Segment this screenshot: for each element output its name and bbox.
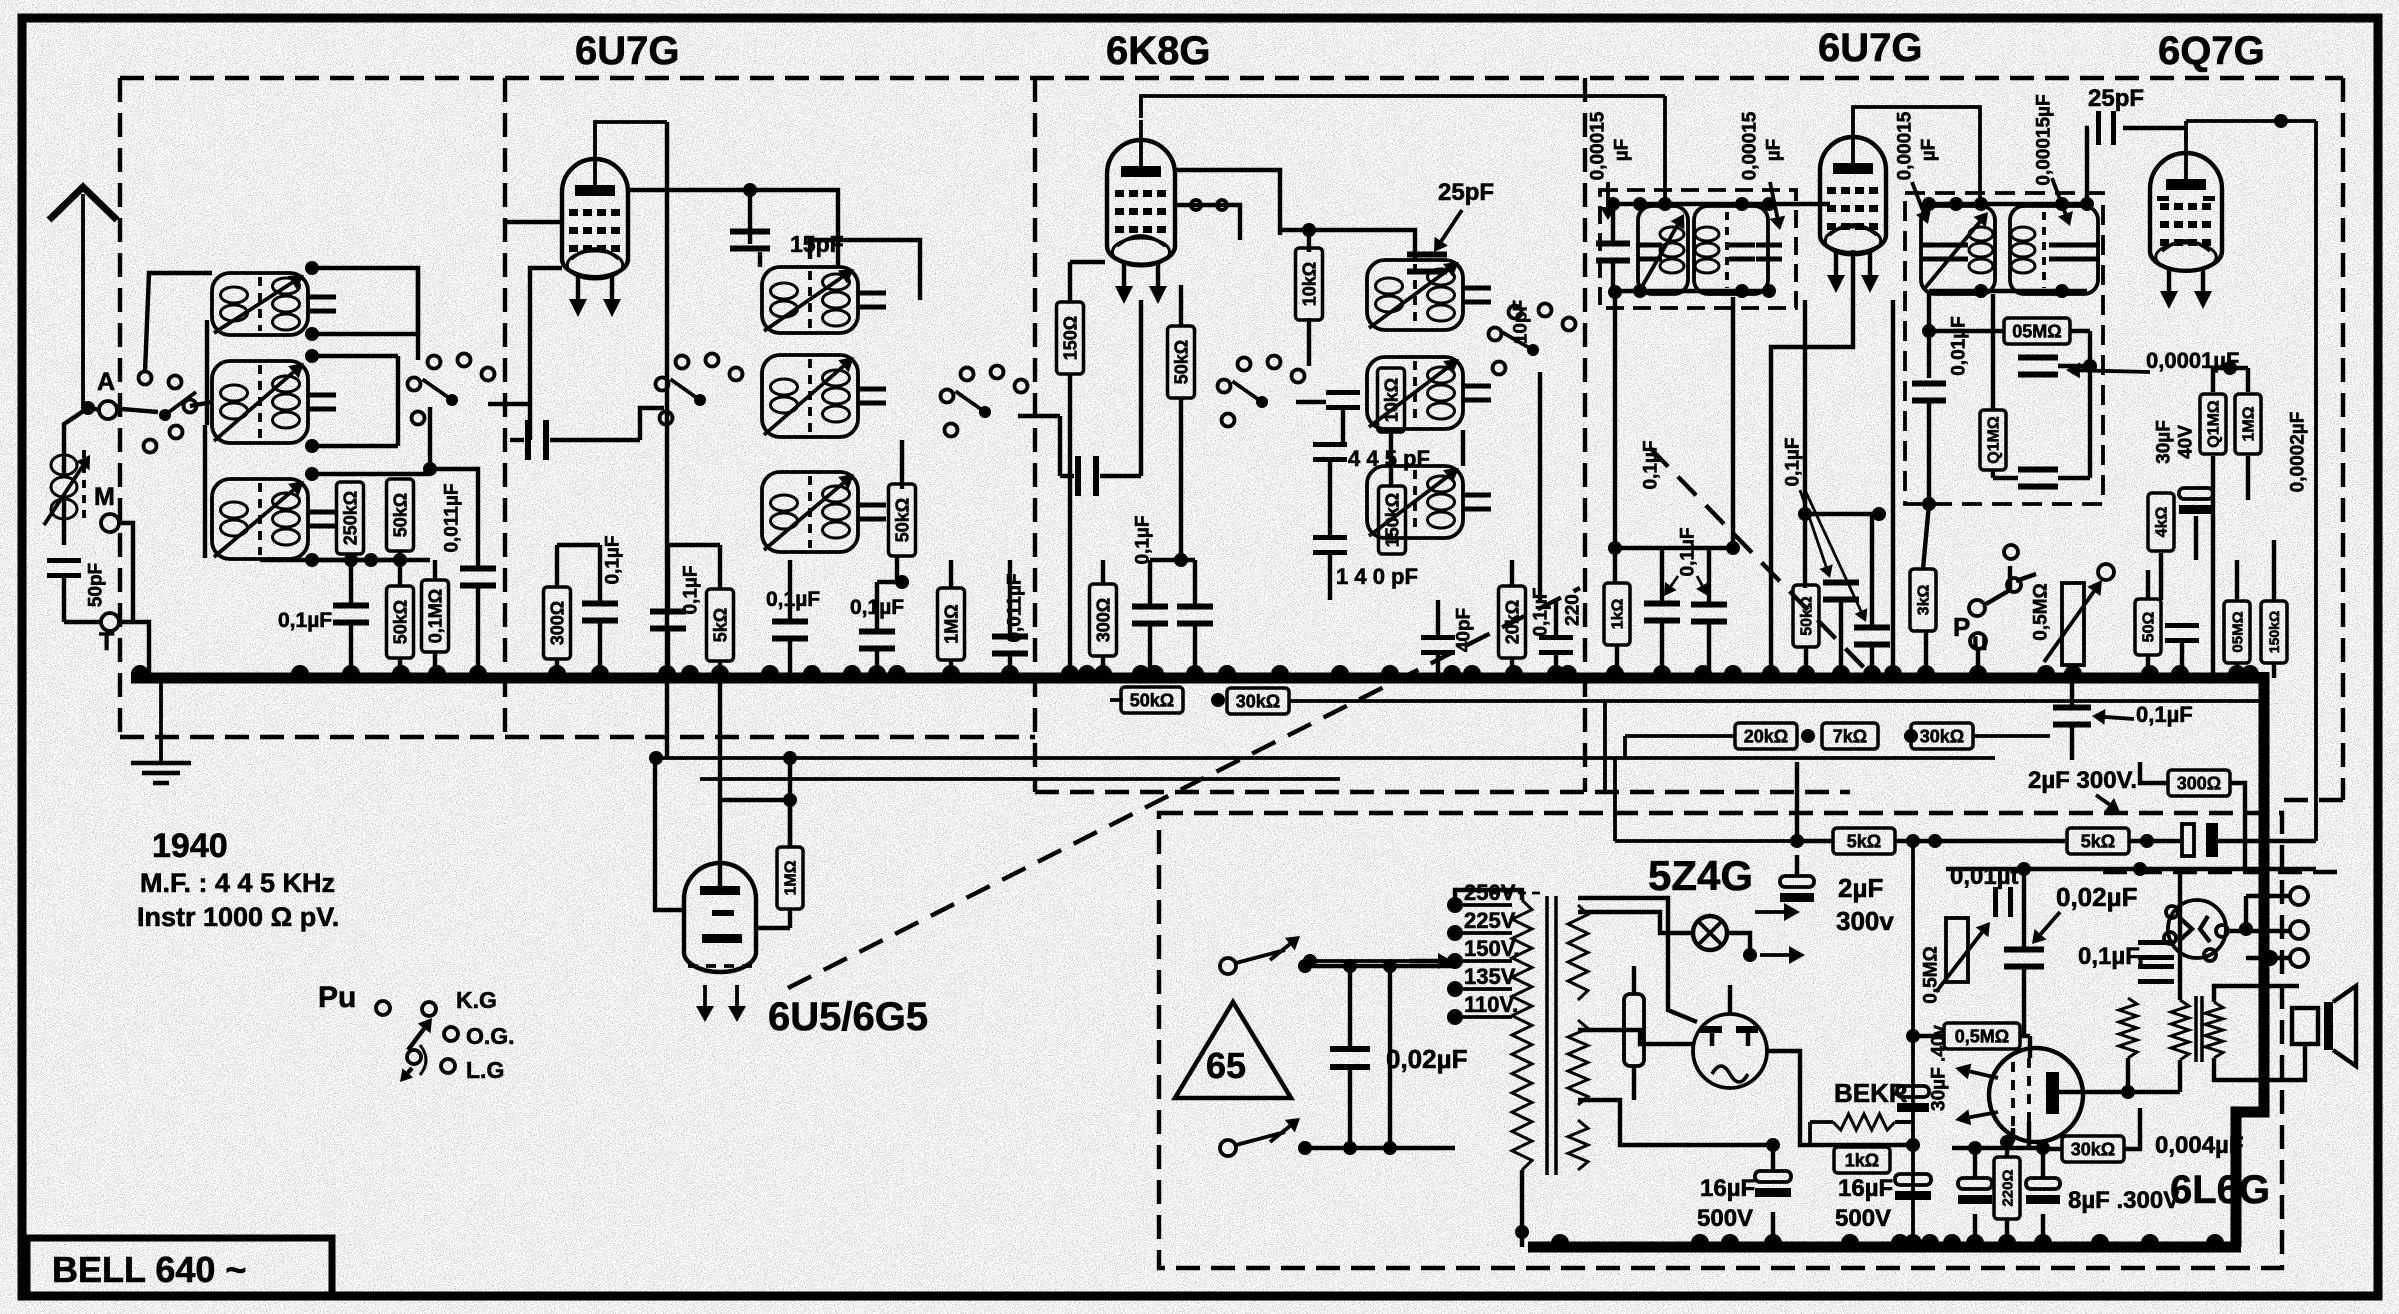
coupling capacitor stage1 [525, 420, 531, 460]
bus junction [131, 665, 149, 674]
capacitor 0.1uF A [333, 603, 369, 609]
arrow 25pF [1441, 210, 1462, 241]
bus junction [2141, 665, 2159, 674]
osc coil C2 [1367, 357, 1463, 429]
secondary to 5Z4G [1578, 1030, 1694, 1044]
power supply dashed box [1159, 813, 2282, 1268]
bus junction [1061, 665, 1079, 674]
psu bus junction [2206, 1234, 2224, 1243]
capacitor 0.1uF Da [1644, 601, 1680, 607]
6U5 arrows [703, 985, 707, 1006]
terminal M [101, 514, 119, 532]
bus junction [1271, 665, 1289, 674]
band switch S4 [1256, 396, 1268, 408]
arrow 0,0001 [2080, 370, 2150, 372]
wire osc chain [1307, 318, 1311, 366]
psu bus junction [1904, 1234, 1922, 1243]
wire S3 out [1018, 414, 1060, 418]
psu bus junction [2141, 1234, 2159, 1243]
detector riser B [1991, 294, 1995, 409]
bus junction [342, 665, 360, 674]
choke BEKR [1833, 1114, 1895, 1130]
transformer core [1545, 896, 1549, 1175]
wire avc row [1805, 512, 1879, 516]
bus junction [711, 665, 729, 674]
gang coupling dashed diagonal 2 [1650, 448, 1878, 682]
wire det 3 [1991, 470, 1995, 478]
tone pot [1946, 918, 1968, 982]
coupling capacitor stage2 [1075, 456, 1081, 496]
resistor 4k [2148, 493, 2174, 551]
bus junction [1797, 665, 1815, 674]
arrow 0,1uF right [2105, 717, 2134, 719]
capacitor 0.1uF right [2053, 705, 2091, 711]
capacitor det 3 [2018, 467, 2058, 473]
IF transformer 1 shield contents - coupling capacitor [1596, 241, 1630, 247]
6L6G plate [2046, 1072, 2059, 1114]
capacitor det bypass [2018, 355, 2058, 361]
tube 5Z4G [1693, 1014, 1767, 1088]
pot wire top [2052, 540, 2073, 583]
Pu contact 2 [422, 1002, 436, 1016]
band switch S3 [979, 406, 991, 418]
wire 5k left [1797, 839, 1833, 843]
bus junction [1653, 665, 1671, 674]
bus junction [548, 665, 566, 674]
arrow 0,1uF Da [1671, 576, 1678, 586]
detector riser A [1927, 294, 1931, 378]
resistor 1M 6U5 [777, 847, 803, 909]
tube 6K8G [1107, 140, 1175, 265]
bus junction [2171, 665, 2189, 674]
wire osc right [1461, 430, 1465, 466]
main negative bus [131, 673, 2266, 684]
wire T to cap [64, 620, 101, 624]
bus junction [1559, 665, 1577, 674]
bus junction [291, 665, 309, 674]
wires B top chains [555, 545, 559, 587]
psu bus junction [1891, 1234, 1909, 1243]
ground lead [159, 682, 163, 763]
psu bus junction [2091, 1234, 2109, 1243]
resistor chain 30k [1911, 723, 1973, 749]
switch wires [1305, 964, 1455, 968]
band switch S2 [694, 394, 706, 406]
transformer secondary mid [1568, 1020, 1588, 1105]
label 1k psu [1834, 1147, 1890, 1173]
antenna arrow [49, 187, 117, 220]
resistor 150ohm [1057, 302, 1084, 374]
wire coil A3 bottom left [205, 557, 260, 559]
wires 6L6 bottom [2005, 1219, 2009, 1243]
fuse [1624, 994, 1644, 1066]
terminal T [101, 613, 119, 631]
6U5 avc wire [788, 758, 792, 847]
resistor 20k C [1499, 586, 1526, 658]
capacitor D5 [1854, 625, 1890, 631]
capacitor 2uF 300v [1780, 876, 1814, 887]
capacitor 0.1uF B1 [582, 601, 618, 607]
coupling capacitor out [2182, 824, 2194, 856]
6L6G heater arrows [1970, 1071, 1998, 1078]
IFT2 top wire [1929, 202, 2087, 206]
bus junction [2037, 665, 2055, 674]
wire T to bus [119, 622, 149, 674]
IF transformer 1 primary [1638, 206, 1688, 294]
voltage tap dots [1447, 897, 1463, 913]
wire A to switch [122, 409, 158, 412]
arrow 0,02uF [2041, 912, 2060, 934]
arrow 0,1uF Db [1697, 576, 1702, 585]
vertical right A1 [312, 268, 418, 334]
wire 1k to bus [1615, 645, 1619, 678]
wire plate 6K8G [1175, 170, 1280, 235]
wire 300ohm [2140, 762, 2168, 783]
psu bus junction [1841, 1234, 1859, 1243]
capacitor det series [1912, 381, 1946, 387]
tube 6Q7G [2150, 153, 2222, 271]
stage divider dashed x2343 [2341, 78, 2345, 800]
bus junction [1832, 665, 1850, 674]
jack Pu circle 2 [1970, 633, 1986, 649]
stage boxes dashed bottom edge right [2103, 870, 2343, 874]
jack wires [1986, 566, 2010, 604]
stage boxes dashed bottom edge mid [1035, 790, 1850, 794]
jack Pu circle 1 [1969, 600, 1985, 616]
band coil B2 [762, 355, 858, 437]
band coil B1 [762, 267, 858, 333]
gang coupling dashed diagonal 1 [788, 588, 1580, 988]
6Q7G diode plates [2157, 196, 2169, 201]
resistor 50ohm [2135, 599, 2161, 655]
node rows B [557, 543, 600, 547]
resistor 30k out [2062, 1136, 2124, 1162]
wire 25pF plate link [2087, 128, 2089, 204]
wire osc grid [1296, 400, 1326, 404]
bus junction [1547, 665, 1565, 674]
transformer primary [1512, 900, 1532, 1170]
6U7G IF top wire [1853, 107, 1980, 202]
resistor 0.1M det [1980, 410, 2006, 470]
wire M down [119, 523, 133, 622]
secondary bottom wire [1578, 1100, 1700, 1145]
arrow 0.00015 4 [2052, 178, 2065, 214]
IFT1 bottom wire [1613, 289, 1769, 293]
grid top cap wire [595, 122, 667, 139]
resistor 1k D [1604, 583, 1630, 645]
output jack socket [2168, 900, 2226, 958]
antenna junction [81, 401, 95, 415]
screen riser IF [1891, 300, 1895, 678]
resistor 10k a [1296, 248, 1323, 320]
wire cap row top [1615, 546, 1733, 550]
resistor 50k D [1793, 585, 1819, 647]
IF secondary riser [1803, 300, 1807, 588]
wire coupling C [1058, 416, 1062, 476]
wires A to bus [349, 560, 353, 603]
psu bus junction [1921, 1234, 1939, 1243]
terminal A [99, 401, 117, 419]
resistor 50k upper [387, 479, 414, 551]
bus junction [1132, 665, 1150, 674]
wire 5k right [1895, 839, 2065, 843]
bus junction [1381, 665, 1399, 674]
resistor 0.1M [422, 580, 449, 652]
stage divider dashed x1035 [1033, 78, 1037, 792]
6L6G wires [2059, 1090, 2180, 1094]
capacitor C b1 [1132, 604, 1168, 610]
dashed corner segment [2282, 798, 2343, 802]
psu dashed 250 [1490, 892, 1545, 895]
volume pot 0.5M [2062, 583, 2084, 665]
capacitor 0.01uF out [1993, 887, 1998, 917]
bus junction [761, 665, 779, 674]
bus junction [1146, 665, 1164, 674]
wire out cap [2129, 839, 2180, 843]
psu bottom bus [1528, 1242, 2241, 1253]
resistor 220ohm [1994, 1157, 2020, 1219]
bus junction [1884, 665, 1902, 674]
resistor 250k [337, 482, 364, 554]
bus junction [1186, 665, 1204, 674]
output transformer core [2194, 996, 2198, 1062]
capacitor 25pF top [2096, 111, 2101, 145]
resistor 0.1M right [2200, 394, 2226, 454]
capacitor cathode 6L6 [1958, 1178, 1992, 1189]
speaker wires [2214, 986, 2299, 1002]
psu bus junction [1966, 1234, 1984, 1243]
tube 6U7G IF [1820, 137, 1886, 253]
psu bus junction [1691, 1234, 1709, 1243]
bus junction [658, 665, 676, 674]
bus junction [1001, 665, 1019, 674]
tube 6L6G [1989, 1048, 2083, 1142]
mains switch 2 [1220, 1140, 1236, 1156]
band coil B3 [762, 472, 858, 552]
band coil A2 [212, 361, 308, 443]
Pu contact 4 [407, 1050, 421, 1064]
bus junction [469, 665, 487, 674]
Pu contact 3 [444, 1027, 458, 1041]
bus resistor wire [1110, 698, 1123, 702]
capacitor 40pF [1421, 635, 1455, 640]
resistor 0.5M right [2224, 601, 2250, 663]
resistor 05M det [2004, 318, 2070, 344]
wire A coils left links [145, 273, 212, 372]
resistor chain 20k [1735, 723, 1797, 749]
osc coil C1 [1367, 260, 1463, 330]
cathode resistor 6L6 [2119, 998, 2137, 1058]
bus junction [428, 665, 446, 674]
stage divider dashed x1585 [1583, 78, 1587, 792]
capacitor 0.1uF Db [1691, 602, 1727, 608]
arrow 0.00015 2 [1770, 182, 1777, 217]
bus junction [1078, 665, 1096, 674]
wire det A down [1927, 420, 1931, 504]
resistor 50k B [889, 484, 916, 556]
title box [27, 1238, 332, 1295]
5Z4G filament [1712, 1066, 1748, 1082]
wire tone [2022, 872, 2026, 947]
6U5 feed wire [718, 678, 722, 886]
psu bus junction [1764, 1234, 1782, 1243]
6L6G grid dashes [2011, 1062, 2015, 1128]
IF transformer 2 secondary [2010, 206, 2098, 294]
resistor 5k [707, 589, 734, 661]
transformer secondary HT [1568, 905, 1588, 1000]
arrow 0.00015 3 [1912, 182, 1923, 212]
Pu switch arm [408, 1028, 424, 1050]
IFT1 top wire [1613, 202, 1830, 206]
bus junction [1443, 665, 1461, 674]
arrow 0.00015 1 [1606, 182, 1610, 207]
wires C tops [1148, 560, 1152, 604]
stage boxes dashed top edge [120, 76, 2343, 80]
bus junction [803, 665, 821, 674]
resistor 50k lower [387, 586, 414, 658]
bus junction [2228, 665, 2246, 674]
capacitor 0.02uF out [2004, 947, 2044, 953]
capacitor 15pF [730, 229, 770, 235]
arrow 0,1uF D2a [1800, 490, 1826, 567]
6U5 target bars [700, 886, 740, 895]
psu bus junction [1943, 1234, 1961, 1243]
capacitor 0.02uF psu [1330, 1046, 1370, 1052]
chain wire [1625, 734, 1735, 738]
capacitor 25pF C [1407, 252, 1447, 258]
primary top wire [1455, 890, 1522, 905]
output transformer secondary [2205, 1002, 2223, 1058]
wire 50kD to bus [1804, 647, 1808, 678]
5Z4G anode left [1710, 1032, 1715, 1046]
node row A y560 [260, 558, 312, 562]
triangle 65 [1175, 1002, 1291, 1098]
5Z4G top wire [1728, 985, 1732, 1014]
5Z4G anode right [1746, 1032, 1751, 1046]
electrolytic det [2179, 488, 2213, 499]
bus junction [2064, 665, 2082, 674]
cathode wire T1 [530, 268, 562, 440]
wire A junction link [83, 406, 99, 410]
transformer secondary LT [1568, 1120, 1588, 1170]
lamp wires [1578, 912, 1693, 933]
wire psu feed riser [1603, 701, 1607, 792]
cathode return 6U7G IF [1771, 250, 1853, 678]
bus junction [1218, 665, 1236, 674]
stage boxes dashed bottom edge left [120, 735, 1035, 739]
Pu contact 5 [441, 1059, 455, 1073]
capacitor D4 [1823, 580, 1859, 586]
IF transformer 2 primary [1921, 206, 1995, 294]
resistor 300ohm right [2168, 770, 2230, 796]
capacitor 8uF [2026, 1178, 2060, 1189]
capacitor 0.1uF out b [2138, 964, 2174, 969]
output transformer primary [2171, 1000, 2189, 1060]
band switch S1b [446, 394, 458, 406]
psu bus junction [1551, 1234, 1569, 1243]
wires right bottom [2146, 570, 2150, 599]
IF transformer 1 secondary [1694, 206, 1768, 294]
capacitor 30uF psu [1897, 1086, 1929, 1097]
heater arrows [1755, 910, 1784, 914]
bus junction [1762, 665, 1780, 674]
bus junction [392, 665, 410, 674]
wires det bottom [2071, 665, 2075, 678]
osc coil C3 [1367, 466, 1463, 538]
capacitor 16uF b [1895, 1174, 1931, 1185]
resistor 300ohm B [544, 587, 571, 659]
HT out wire [1800, 1085, 1913, 1145]
wire S1b out [488, 402, 530, 406]
wire B2 links [862, 300, 935, 356]
wire B1 right risers [862, 267, 920, 269]
tube 6U5 envelope [684, 863, 756, 972]
wire osc top [1280, 230, 1415, 259]
wire B coils top [810, 240, 920, 300]
bus junction [888, 665, 906, 674]
bus junction [1694, 665, 1712, 674]
output terminals [2290, 887, 2308, 905]
plate line 6Q7G [2186, 119, 2316, 123]
wire 3k link [1923, 504, 1929, 569]
band coil A3 [212, 479, 308, 559]
bus junction [1724, 665, 1742, 674]
bus junction [868, 665, 886, 674]
antenna coil [51, 455, 77, 475]
capacitor 0.1uF B4 [859, 629, 895, 635]
capacitor right b [2165, 623, 2199, 628]
resistor 5k psu [1833, 828, 1895, 854]
5Z4G out wire [1767, 1051, 1800, 1085]
resistor 30k bus [1227, 688, 1289, 714]
IFT2 bottom wire [1929, 289, 2087, 293]
bus junction [942, 665, 960, 674]
arrow 150V [1410, 959, 1438, 963]
capacitor 0.1uF C2 [1539, 635, 1573, 640]
psu bus junction [1721, 1234, 1739, 1243]
screen feed vertical [665, 122, 669, 758]
resistor 300ohm C [1090, 584, 1117, 656]
heater wire 1 [656, 756, 1995, 760]
band switch S5 [1527, 344, 1539, 356]
resistor chain 7k [1822, 723, 1878, 749]
resistor 10k b [1378, 368, 1405, 432]
Pu contact 1 [376, 1001, 390, 1015]
capacitor 0.011uF B [992, 634, 1028, 640]
wires C to bus [1068, 374, 1072, 678]
wire into S2 [640, 408, 664, 440]
tube 6U7G RF [562, 159, 628, 277]
arrow 0,1uF D2b [1805, 490, 1861, 611]
arrow 2uF300 [2096, 795, 2109, 804]
bus junction [2241, 665, 2259, 674]
6U5 grid dashes [688, 964, 752, 968]
pilot lamp [1693, 916, 1727, 950]
stage divider dashed x120 [118, 78, 122, 737]
resistor 50k bus [1121, 687, 1183, 713]
mains switch 1 [1220, 958, 1236, 974]
band switch S1a [159, 409, 171, 421]
bus junction [1606, 665, 1624, 674]
IF decoupling riser [1613, 292, 1617, 583]
antenna coil core dashes [82, 450, 86, 520]
psu bus junction [1998, 1234, 2016, 1243]
capacitor 16uF a [1755, 1171, 1791, 1182]
heater wire 2 [700, 777, 1340, 781]
detector shield dashed box [1905, 193, 2103, 504]
bus junction [1463, 665, 1481, 674]
resistor 50k C [1168, 326, 1195, 398]
